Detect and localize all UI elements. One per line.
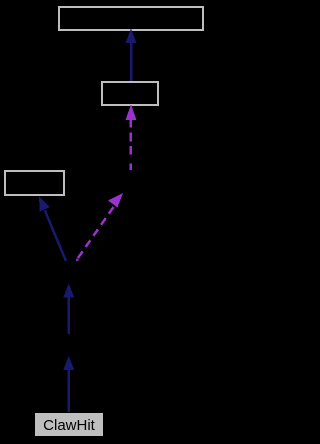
node middle box (empty): [102, 82, 158, 105]
edge hidden node to middle box (dashed usage arrow): [126, 105, 137, 171]
edge hidden lower node to hidden junction node (solid arrow): [63, 284, 74, 335]
svg-text:ClawHit: ClawHit: [43, 417, 96, 434]
node ClawHit (current class, gray filled): [35, 413, 103, 436]
node left box (empty): [5, 171, 64, 195]
edge hidden junction node to left box (solid inheritance arrow, diagonal): [39, 197, 66, 262]
edge middle box to top box (solid inheritance arrow): [126, 29, 137, 82]
edge hidden junction node to hidden right node (dashed usage arrow, diagonal): [76, 193, 123, 261]
edge ClawHit to hidden lower node (solid arrow): [63, 356, 74, 412]
node top box (empty): [59, 7, 203, 30]
